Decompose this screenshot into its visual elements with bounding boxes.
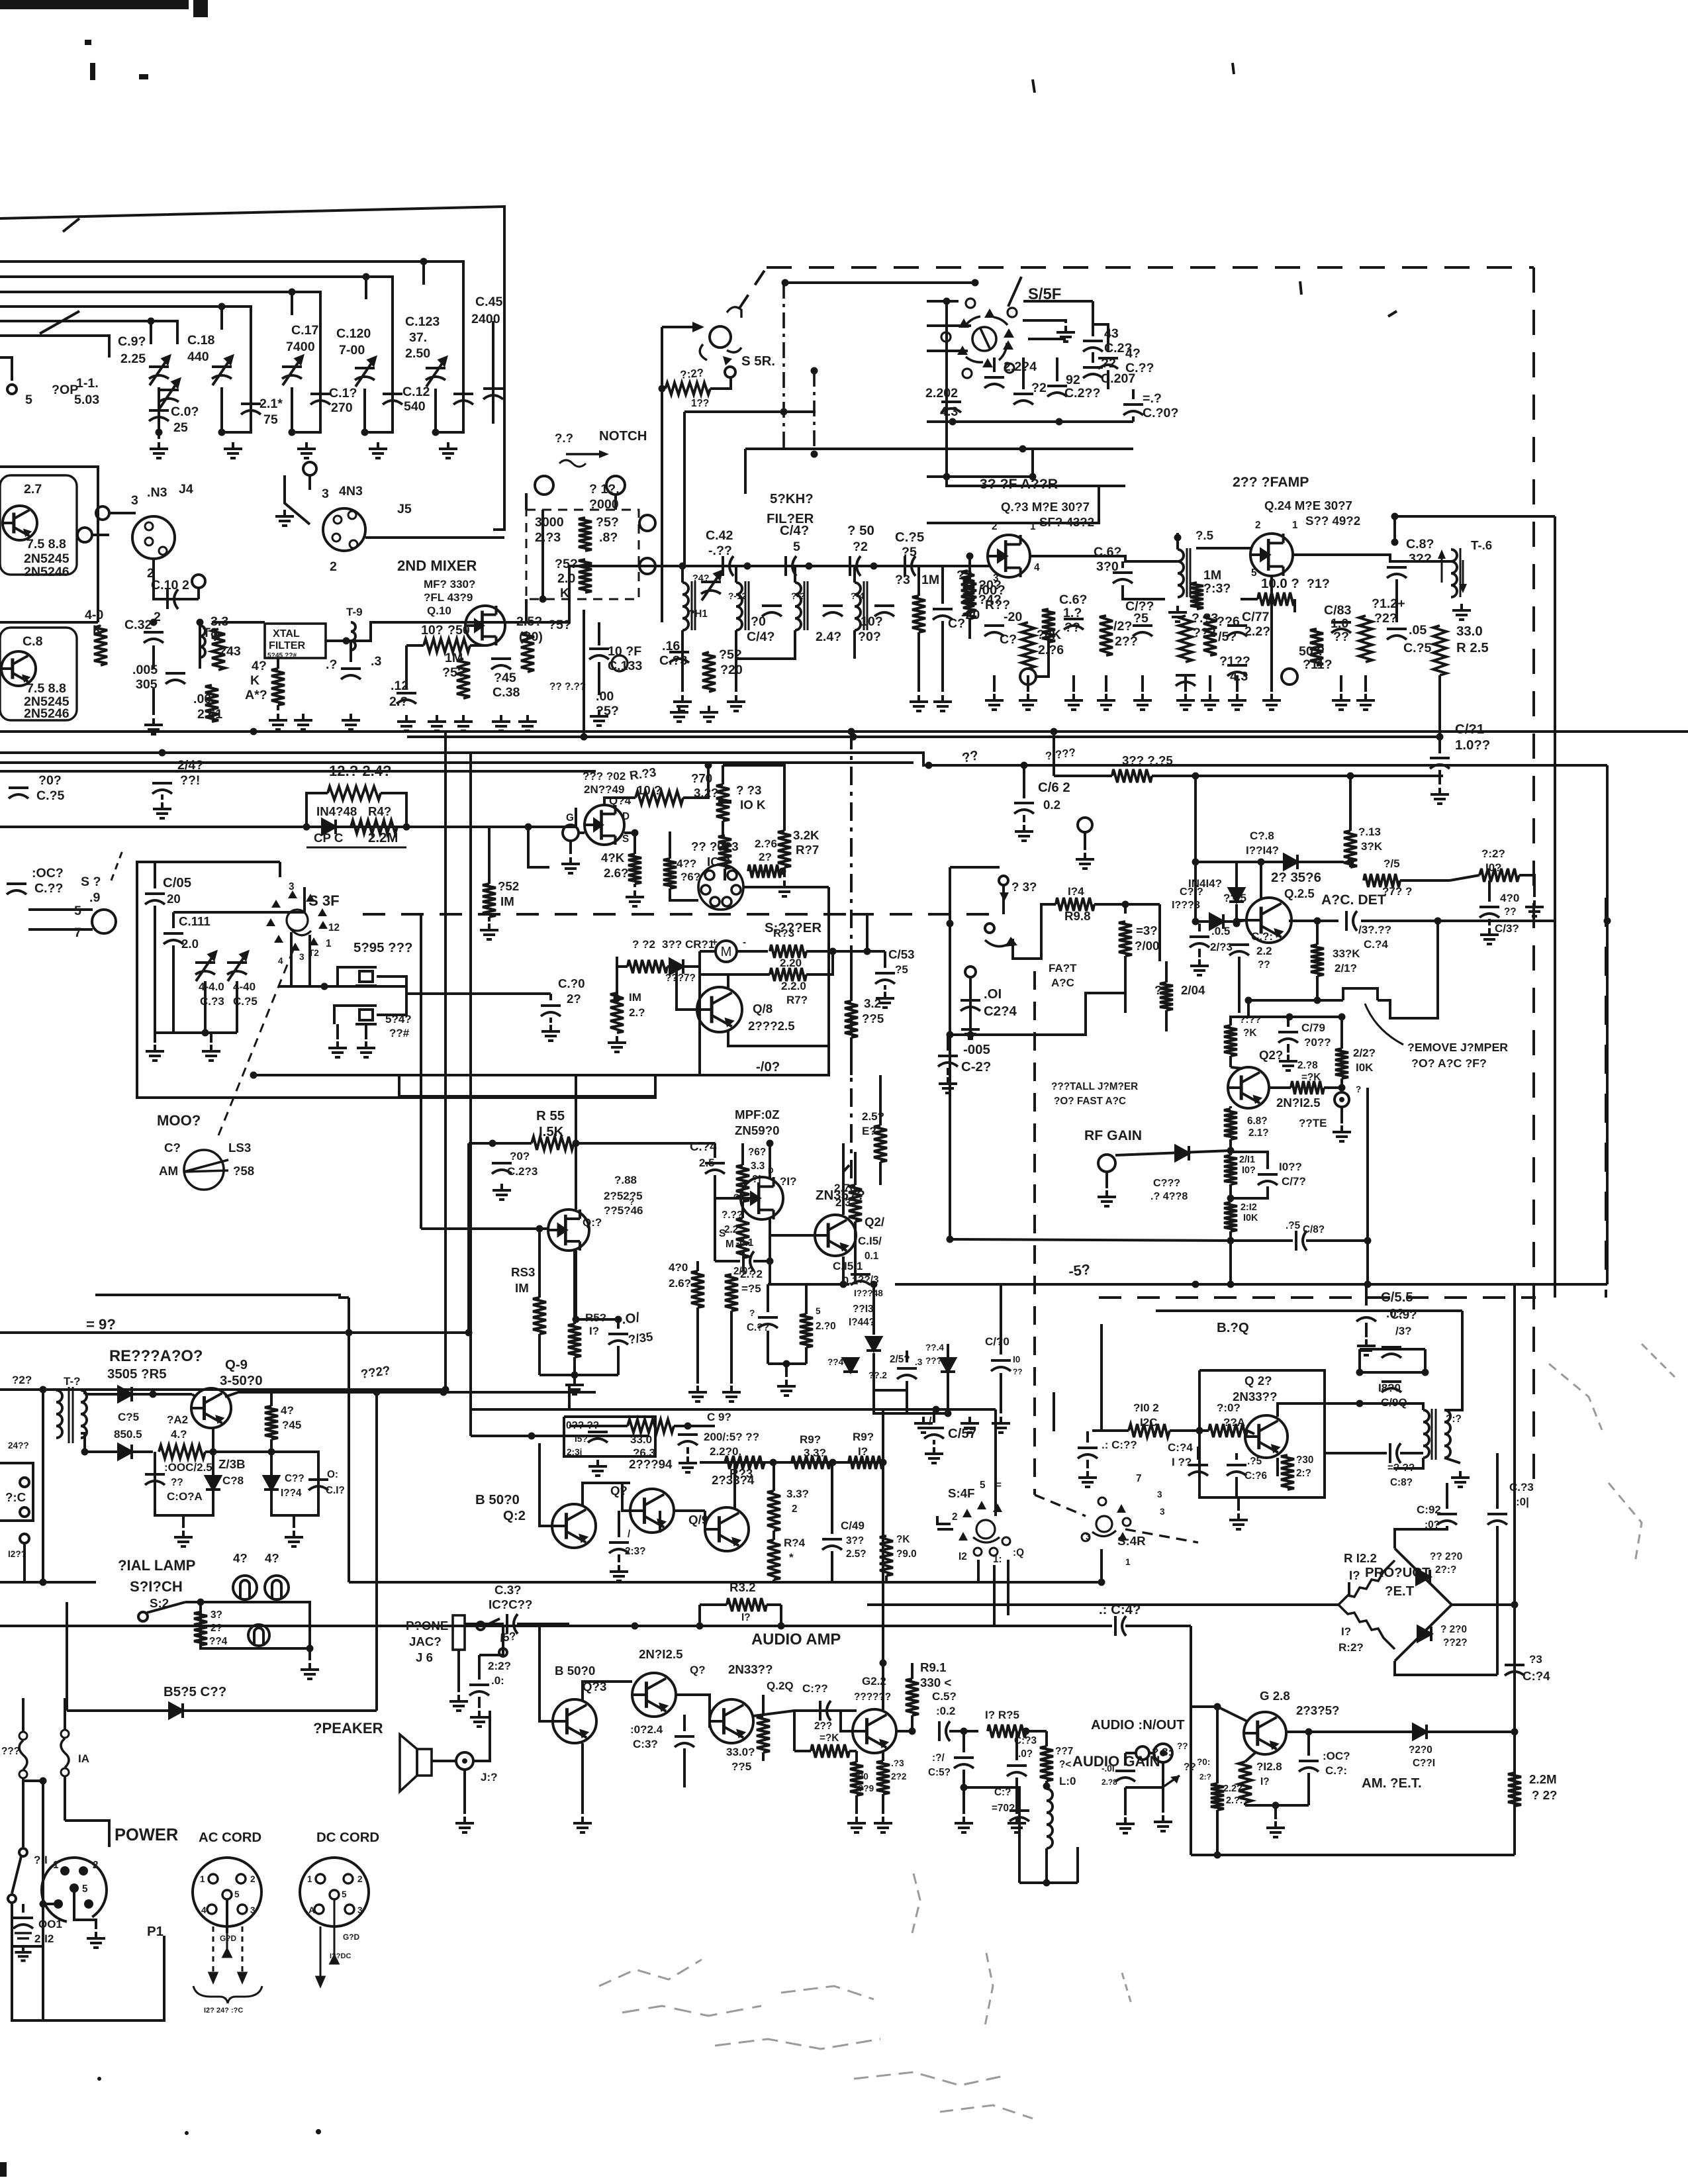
svg-text:C.I?: C.I? xyxy=(326,1485,345,1496)
q17 drain xyxy=(769,1143,771,1178)
wire r49b xyxy=(277,705,279,710)
svg-text:?5: ?5 xyxy=(1133,611,1149,626)
junction xyxy=(782,279,789,287)
wire col5 xyxy=(434,389,437,432)
svg-text:1M: 1M xyxy=(445,651,463,665)
junction xyxy=(829,1459,837,1466)
svg-text:3??: 3?? xyxy=(846,1535,864,1546)
svg-text:C.5?: C.5? xyxy=(932,1690,957,1703)
junction xyxy=(1122,901,1129,908)
wire r50b xyxy=(470,644,485,647)
svg-text:?50: ?50 xyxy=(447,623,470,638)
s1c wire xyxy=(23,1543,26,1582)
q14 gate stub xyxy=(569,841,572,854)
junction xyxy=(943,473,951,481)
transistor Q22 xyxy=(853,1709,896,1753)
diode CR22 xyxy=(1418,1627,1431,1641)
transistor Q11 xyxy=(548,1210,589,1251)
c136 top xyxy=(618,1511,620,1537)
ground xyxy=(439,442,457,458)
v2066 xyxy=(1366,1088,1369,1284)
capacitor C122 xyxy=(383,394,402,404)
ifrow stub xyxy=(1209,675,1211,692)
junction xyxy=(770,1459,777,1466)
svg-text:7.5 8.8: 7.5 8.8 xyxy=(26,681,66,696)
audio wire 2456 xyxy=(0,1625,837,1627)
svg-text:?O? A?C ?F?: ?O? A?C ?F? xyxy=(1411,1057,1487,1070)
am det bottom loop xyxy=(1245,1804,1309,1807)
svg-text::OOC/2.5: :OOC/2.5 xyxy=(164,1461,212,1474)
svg-text:2:I2: 2:I2 xyxy=(1241,1202,1257,1213)
ground c214 xyxy=(961,1023,980,1039)
capacitor C136 xyxy=(609,1543,629,1553)
svg-text:C.2??: C.2?? xyxy=(1064,386,1100,401)
svg-text:?.?: ?.? xyxy=(555,431,573,445)
wire t8 xyxy=(199,622,201,669)
ground xyxy=(590,710,608,726)
svg-text:IA: IA xyxy=(78,1752,89,1765)
svg-text:5: 5 xyxy=(816,1306,821,1316)
svg-text:C.?5: C.?5 xyxy=(1403,641,1432,655)
T-6 arrows xyxy=(1441,553,1443,583)
wire T-4b b xyxy=(853,630,856,652)
svg-text:???: ??? xyxy=(1,1746,20,1757)
r88 top xyxy=(854,1152,857,1185)
svg-text:??2?: ??2? xyxy=(1443,1637,1468,1648)
svg-text:C??I: C??I xyxy=(1413,1758,1435,1769)
p1 wire 4 xyxy=(43,1903,54,1905)
r70 top xyxy=(722,765,724,784)
resistor R63 xyxy=(635,791,683,804)
capacitor c t9 xyxy=(341,669,361,679)
junction xyxy=(870,1281,878,1288)
svg-text:C.45: C.45 xyxy=(475,295,502,309)
capacitor C137 xyxy=(675,1736,694,1747)
mute jack xyxy=(1335,1092,1349,1107)
svg-text:?5?: ?5? xyxy=(555,557,578,571)
r47 loop xyxy=(306,793,328,827)
svg-text:10?: 10? xyxy=(861,614,883,629)
meter frame2 xyxy=(698,951,701,1075)
junction xyxy=(1245,997,1252,1004)
long AGC wire xyxy=(407,736,1440,738)
am gnd stub xyxy=(1274,1805,1277,1819)
wire col2b xyxy=(222,330,251,432)
wire j4 a xyxy=(109,512,136,514)
svg-text:I?: I? xyxy=(1349,1568,1360,1582)
capacitor C192 xyxy=(1437,1514,1457,1525)
transformer T17 pri xyxy=(1423,1410,1429,1458)
junction xyxy=(870,563,878,570)
svg-text:=?K: =?K xyxy=(1301,1072,1321,1083)
s15f bus a xyxy=(927,449,1033,477)
junction xyxy=(218,303,226,310)
r102 wire xyxy=(1092,1429,1129,1432)
capacitor C38 xyxy=(491,659,511,669)
svg-text:2.1*: 2.1* xyxy=(259,397,283,411)
junction xyxy=(573,1316,580,1323)
svg-text:?-12: ?-12 xyxy=(728,591,747,601)
resistor R53b xyxy=(533,1298,546,1334)
resistor R73m xyxy=(718,800,731,802)
capacitor C470 xyxy=(1009,1811,1029,1821)
capacitor C111 xyxy=(164,933,183,944)
resistor R56 xyxy=(579,518,592,551)
svg-text:10 ?F: 10 ?F xyxy=(608,644,641,659)
transistor Q19 xyxy=(705,1507,749,1551)
ground c136 xyxy=(610,1565,628,1581)
svg-text:2:2?: 2:2? xyxy=(488,1660,511,1672)
resistor R114 xyxy=(1258,593,1295,606)
switch S11 bot xyxy=(8,1895,16,1903)
capacitor C87 xyxy=(1387,567,1407,578)
s1c c2 xyxy=(20,1507,29,1517)
ifrow stub xyxy=(1027,675,1029,692)
q25 base rail xyxy=(1237,920,1246,922)
svg-text:=.?: =.? xyxy=(1143,391,1162,406)
svg-text:2N5246: 2N5246 xyxy=(24,565,70,579)
ground c88 xyxy=(1116,1817,1135,1833)
transistor Q17 xyxy=(741,1177,783,1219)
sp wires2 xyxy=(28,928,93,931)
svg-text:3??: 3?? xyxy=(1409,551,1432,566)
if top right xyxy=(1395,515,1555,518)
ground mute xyxy=(1333,1125,1351,1141)
ground s15f xyxy=(1056,326,1075,342)
svg-text:2/1?: 2/1? xyxy=(1335,962,1357,974)
svg-text:2:I2: 2:I2 xyxy=(34,1932,54,1945)
favc stub xyxy=(969,977,972,1035)
gnd bus l xyxy=(874,1390,923,1413)
junction xyxy=(705,762,712,769)
transformer T-4b core xyxy=(863,581,865,630)
svg-text:C.?4: C.?4 xyxy=(690,1139,717,1153)
svg-text:4-4.0: 4-4.0 xyxy=(199,980,224,993)
wire r49 xyxy=(277,658,279,669)
rfgain stub xyxy=(1105,1172,1108,1188)
svg-text:C??: C?? xyxy=(285,1473,305,1484)
q28 emit r128 xyxy=(1245,1752,1256,1762)
svg-text:?: ? xyxy=(1154,983,1162,997)
r53b bot xyxy=(538,1334,541,1375)
svg-text:=70?: =70? xyxy=(992,1803,1015,1814)
svg-text:3000: 3000 xyxy=(535,515,564,530)
S5R arrowhead xyxy=(692,322,704,332)
svg-text:2/4?: 2/4? xyxy=(177,758,203,773)
avc jumper wire xyxy=(1248,999,1343,1002)
svg-text:2N?I2.5: 2N?I2.5 xyxy=(1276,1096,1320,1110)
wire c204tb xyxy=(1107,370,1109,389)
junction xyxy=(1511,1601,1519,1609)
resistor R118 xyxy=(1291,1081,1324,1094)
transformer T12 xyxy=(736,583,742,630)
svg-text:2:?: 2:? xyxy=(1296,1468,1311,1479)
ground r62m xyxy=(608,1036,626,1052)
svg-text:?IAL LAMP: ?IAL LAMP xyxy=(118,1557,195,1574)
junction xyxy=(343,638,350,645)
svg-text:2?:?: 2?:? xyxy=(1435,1564,1456,1576)
jumper callout xyxy=(1365,1004,1403,1045)
capacitor C153 xyxy=(875,973,895,984)
junction xyxy=(909,1728,916,1735)
junction xyxy=(289,289,296,296)
c214 bot xyxy=(969,1012,972,1021)
junction xyxy=(811,367,818,375)
svg-text:C/4?: C/4? xyxy=(780,524,809,538)
IF wire 2 xyxy=(1030,556,1178,561)
y2129 left xyxy=(568,1386,571,1409)
svg-text:C/83: C/83 xyxy=(1324,603,1351,618)
svg-text:?70: ?70 xyxy=(691,771,712,785)
svg-text:C.??: C.?? xyxy=(747,1322,769,1333)
svg-text:-005: -005 xyxy=(963,1043,990,1057)
junction xyxy=(1214,1852,1221,1859)
wire gnd c32 xyxy=(152,688,155,715)
c111 wireb xyxy=(172,945,175,1033)
junction xyxy=(1056,418,1063,426)
gnd bus l2 xyxy=(907,1412,948,1415)
ground c211 xyxy=(939,1077,957,1093)
svg-text:?: ? xyxy=(749,1308,755,1318)
c214 top xyxy=(969,978,972,995)
capacitor C? xyxy=(453,394,473,404)
svg-text:33.0: 33.0 xyxy=(630,1433,652,1446)
transistor Q10 xyxy=(465,606,505,645)
junction xyxy=(442,1386,449,1394)
svg-text:?0:: ?0: xyxy=(1197,1757,1210,1767)
bottom rail am xyxy=(1191,1854,1515,1856)
ground c157 xyxy=(925,1447,943,1463)
junction xyxy=(1391,513,1399,520)
capacitor C107 xyxy=(149,410,169,421)
bus wire 2b xyxy=(366,277,393,299)
q20 base xyxy=(708,1721,711,1728)
junction xyxy=(420,258,428,265)
r79 out xyxy=(806,951,833,974)
r76 jack wire2 xyxy=(1036,639,1049,677)
svg-text:DC CORD: DC CORD xyxy=(316,1830,379,1845)
svg-text:?5: ?5 xyxy=(895,963,908,976)
svg-text:OO1: OO1 xyxy=(38,1918,62,1930)
c67 wire xyxy=(1121,561,1124,568)
capacitor C134 xyxy=(1346,911,1357,931)
svg-text:3?K: 3?K xyxy=(1361,840,1383,853)
c107 left xyxy=(715,1260,740,1262)
resistor R24 xyxy=(1508,1773,1521,1806)
junction xyxy=(489,1140,496,1147)
resistor R97a xyxy=(849,1456,883,1469)
transistor Q7 xyxy=(3,506,37,540)
svg-text:ZN59?0: ZN59?0 xyxy=(735,1123,780,1137)
resistor R133 xyxy=(1179,616,1192,662)
meter frame3 xyxy=(254,1074,700,1076)
vert from notch xyxy=(583,610,585,737)
svg-text:C-2?: C-2? xyxy=(961,1060,991,1074)
mute jack dot xyxy=(1339,1097,1344,1102)
ifrow stub xyxy=(1072,675,1075,692)
c159 bot xyxy=(962,1770,965,1787)
long wire A xyxy=(0,730,1688,733)
svg-text:/3?.??: /3?.?? xyxy=(1358,924,1391,936)
svg-text:C/49: C/49 xyxy=(841,1519,865,1532)
svg-text:C/6 2: C/6 2 xyxy=(1038,781,1070,795)
junction xyxy=(373,1389,381,1396)
avc frame left xyxy=(949,867,951,1035)
cr18 wire xyxy=(1196,861,1284,863)
DC cord pin xyxy=(330,1890,339,1899)
crc box xyxy=(306,847,406,849)
r121 top xyxy=(1340,1017,1343,1049)
ground l1 xyxy=(914,1417,933,1433)
jack gnd wire2 xyxy=(1124,1787,1127,1815)
junction xyxy=(1227,1237,1235,1245)
svg-text:AM: AM xyxy=(159,1164,178,1178)
ground r52 xyxy=(480,924,498,939)
svg-text:1.0: 1.0 xyxy=(1331,616,1348,631)
resistor R47 xyxy=(328,786,381,800)
cr17 out xyxy=(1225,920,1237,923)
v2288 xyxy=(1513,1284,1516,1821)
svg-text:2N33??: 2N33?? xyxy=(728,1662,773,1676)
junction xyxy=(525,824,532,831)
c105 wire xyxy=(154,862,156,888)
wire col1 xyxy=(158,387,160,430)
avc left v xyxy=(949,1035,951,1239)
svg-text:Q2?: Q2? xyxy=(1259,1048,1283,1062)
svg-text:.: C:??: .: C:?? xyxy=(1102,1439,1137,1451)
svg-text:1: 1 xyxy=(1292,520,1298,531)
junction xyxy=(1305,1729,1313,1736)
svg-text:2.?3: 2.?3 xyxy=(535,530,561,545)
capacitor C155s xyxy=(905,556,915,576)
c155g bot xyxy=(1365,1323,1368,1337)
junction xyxy=(306,1645,314,1652)
wire S? xyxy=(0,357,12,381)
svg-text:R?4: R?4 xyxy=(784,1537,806,1549)
svg-text:??TE: ??TE xyxy=(1299,1117,1327,1129)
ground tchain xyxy=(727,695,745,711)
svg-text::?/: :?/ xyxy=(932,1752,945,1764)
svg-text:3?: 3? xyxy=(211,1609,222,1621)
junction xyxy=(1391,539,1399,546)
trimmer C106 xyxy=(149,356,169,385)
svg-text:R9.8: R9.8 xyxy=(1064,909,1090,923)
svg-text:C/77: C/77 xyxy=(1242,610,1269,624)
ground c132b xyxy=(1480,928,1499,944)
c159 top xyxy=(962,1731,965,1752)
svg-text:S?? 49?2: S?? 49?2 xyxy=(1305,514,1360,528)
trimmer C103 xyxy=(159,379,179,408)
resistor R119 xyxy=(1311,945,1324,976)
svg-text:?.88: ?.88 xyxy=(614,1174,637,1186)
c71 bot xyxy=(1238,957,1241,1013)
arrow r73 xyxy=(721,839,729,849)
crystal Y1 xyxy=(355,967,377,986)
s15f capw2 xyxy=(1022,357,1025,389)
s15f row wire xyxy=(927,420,1133,423)
wire r124b xyxy=(710,377,731,389)
svg-text:.O/: .O/ xyxy=(621,1310,641,1327)
jack ant xyxy=(192,575,205,588)
resistor R?47 xyxy=(811,1744,849,1758)
svg-text:C:?4: C:?4 xyxy=(1523,1669,1550,1683)
junction xyxy=(947,1236,954,1243)
svg-text:K: K xyxy=(250,673,259,688)
svg-text:33.0?: 33.0? xyxy=(726,1746,755,1758)
ground xyxy=(150,442,168,458)
xtal box top xyxy=(279,862,281,877)
resistor R57 xyxy=(579,559,592,593)
c44 frameb xyxy=(767,1331,769,1364)
c176 top xyxy=(1235,1453,1238,1460)
audio right wire xyxy=(781,1625,1112,1627)
wire col6 xyxy=(492,321,494,424)
dashed boundary right v xyxy=(1532,267,1535,1490)
junction xyxy=(1286,1014,1293,1021)
junction xyxy=(150,619,158,626)
capacitor C99 xyxy=(1382,1347,1401,1358)
ground q13b xyxy=(573,1817,592,1832)
svg-text:2N5245: 2N5245 xyxy=(24,551,70,566)
c162 stub xyxy=(1023,815,1025,822)
bridge left wire xyxy=(867,1603,1338,1606)
svg-text:R5?: R5? xyxy=(585,1311,606,1324)
resistor R44 xyxy=(194,1612,207,1645)
junction xyxy=(778,1623,785,1630)
svg-text:??5?46: ??5?46 xyxy=(604,1204,643,1217)
vert 603 xyxy=(398,1075,400,1096)
svg-text:/00?: /00? xyxy=(978,583,1006,598)
s1c box xyxy=(0,1463,33,1521)
r73v bot xyxy=(773,1531,775,1540)
junction xyxy=(1434,918,1442,925)
resistor R87 xyxy=(874,1125,887,1162)
svg-text:I8?0: I8?0 xyxy=(1378,1382,1401,1394)
svg-text:C.8: C.8 xyxy=(23,634,43,649)
svg-text:I2: I2 xyxy=(959,1551,967,1562)
speaker feed xyxy=(473,1711,490,1761)
rotary switch S3F contacts xyxy=(318,908,327,916)
c44 r80 bus xyxy=(768,1362,806,1365)
svg-text:AUDIO AMP: AUDIO AMP xyxy=(751,1631,841,1648)
r97b bot xyxy=(1045,1781,1048,1786)
svg-text:B 50?0: B 50?0 xyxy=(475,1493,520,1507)
ground c40 xyxy=(541,1025,560,1041)
trimmer C146 xyxy=(701,571,722,600)
s3f wire down2 xyxy=(308,935,311,986)
ground xyxy=(297,442,316,458)
ground f2 xyxy=(933,695,952,711)
svg-text:1.?: 1.? xyxy=(1063,606,1082,620)
audio right wire2 xyxy=(1125,1625,1191,1627)
avc gnd wire xyxy=(1084,833,1086,850)
svg-text:?/00: ?/00 xyxy=(1135,939,1159,953)
jack r116 xyxy=(1282,669,1297,685)
svg-text:3?? CR?1: 3?? CR?1 xyxy=(662,938,714,951)
junction xyxy=(573,1140,580,1147)
fuse wires xyxy=(22,1698,24,1732)
fuse wires3 xyxy=(22,1778,24,1816)
svg-text:2.?6: 2.?6 xyxy=(755,837,777,850)
feed v1b xyxy=(683,412,686,566)
r77 top xyxy=(783,798,786,831)
resistor R77 xyxy=(778,831,791,867)
wire T-4b xyxy=(853,566,856,583)
svg-text:C???: C??? xyxy=(1153,1177,1180,1189)
junction xyxy=(361,429,369,436)
svg-text:/2?: /2? xyxy=(1113,619,1132,634)
pencil scribble 12 xyxy=(1122,1973,1132,2006)
